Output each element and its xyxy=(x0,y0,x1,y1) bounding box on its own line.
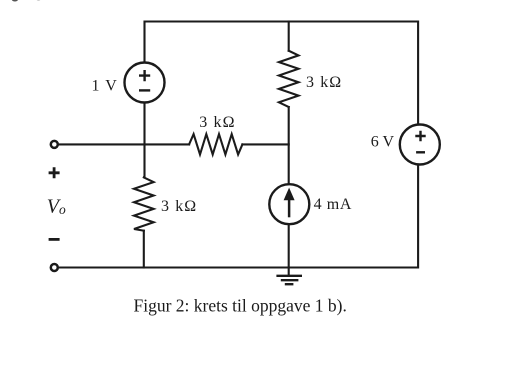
svg-text:3 kΩ: 3 kΩ xyxy=(199,114,235,131)
wire: middle branch top stub xyxy=(288,22,290,51)
resistor R3 3k (vertical, left) xyxy=(134,177,154,230)
resistor R2 3k (vertical, top middle) xyxy=(279,51,299,107)
svg-text:3 kΩ: 3 kΩ xyxy=(306,74,342,91)
terminal node - (bottom-left open circle) xyxy=(51,264,58,271)
cut-off text mark top (second, fainter) xyxy=(37,0,41,1)
svg-text:Figur 2: krets til oppgave 1 b: Figur 2: krets til oppgave 1 b). xyxy=(134,295,347,315)
wire: ground stub xyxy=(288,268,290,276)
terminal node + (top-left open circle) xyxy=(51,141,58,148)
voltage source V2 6V xyxy=(400,125,440,165)
wire: left branch bottom xyxy=(143,231,145,268)
resistor R1 3k (horizontal) xyxy=(189,134,242,154)
output polarity - xyxy=(49,238,60,241)
svg-text:1 V: 1 V xyxy=(92,77,118,94)
wire: bottom rail xyxy=(59,164,419,267)
cut-off text descender top-left xyxy=(12,0,18,2)
voltage source V1 1V xyxy=(125,63,165,103)
wire: 1V source bottom to middle node xyxy=(143,103,145,178)
svg-text:6 V: 6 V xyxy=(371,134,395,151)
output polarity + xyxy=(49,167,60,178)
ground xyxy=(276,276,302,284)
wire: horizontal resistor to middle branch xyxy=(242,143,288,145)
wire: middle branch between resistor and current source xyxy=(288,107,290,184)
wire: current source bottom to ground rail xyxy=(288,224,290,267)
wire: middle horizontal from terminal A xyxy=(59,143,190,145)
svg-text:4 mA: 4 mA xyxy=(314,196,352,213)
current source I1 4mA xyxy=(269,184,309,224)
wire: top rail xyxy=(145,22,419,125)
svg-text:3 kΩ: 3 kΩ xyxy=(161,198,197,215)
